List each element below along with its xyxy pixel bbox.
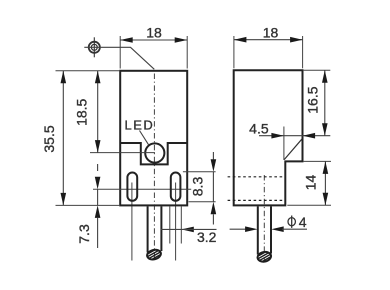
14 lower extension line	[287, 204, 331, 206]
svg-text:4.5: 4.5	[249, 120, 269, 136]
dimension Phi 4	[230, 214, 307, 232]
svg-text:18: 18	[263, 25, 279, 41]
LED center extension line	[90, 152, 155, 154]
svg-text:18.5: 18.5	[74, 98, 90, 125]
dimension 16.5	[304, 70, 327, 135]
dimension 14	[303, 161, 329, 205]
dimension 35.5	[41, 71, 66, 206]
dimension 18.5	[74, 71, 101, 153]
internal line y=189.3 across body	[93, 188, 191, 190]
cable (side view)	[257, 206, 259, 254]
slot edge extension lines below body	[169, 207, 171, 244]
dimension 18 (side view top)	[234, 25, 303, 69]
14 upper extension line	[304, 160, 331, 162]
cable (front view)	[147, 206, 149, 252]
svg-text:7.3: 7.3	[76, 224, 92, 244]
cable end ellipse with hatch (side view)	[252, 243, 276, 270]
chamfer diagonal	[284, 139, 302, 159]
dimension 3.2	[161, 227, 217, 245]
dashed mounting zone lines	[228, 176, 284, 178]
dimension 4.5 line (also 16.5 lower reference)	[249, 120, 330, 138]
svg-text:35.5: 35.5	[41, 125, 57, 152]
target symbol (sensing face datum)	[89, 37, 100, 57]
dimension 7.3	[76, 164, 100, 248]
svg-text:16.5: 16.5	[304, 86, 320, 113]
mounting slot right	[171, 173, 181, 201]
LED leader line	[140, 131, 149, 145]
svg-text:14: 14	[303, 175, 319, 191]
body outline (side view)	[234, 70, 303, 205]
svg-text:8.3: 8.3	[190, 177, 206, 197]
slot center line left	[131, 183, 133, 261]
LED window circle	[145, 143, 164, 162]
bottom extension line (left of body)	[56, 204, 120, 206]
svg-text:4: 4	[299, 214, 307, 230]
4.5 chamfer extension line	[283, 127, 285, 161]
slot center line right	[175, 183, 177, 261]
svg-text:3.2: 3.2	[197, 229, 217, 245]
top extension line (left of body)	[56, 70, 120, 72]
LED recess notch	[120, 143, 187, 164]
center line (vertical dash-dot, side view)	[263, 175, 265, 260]
body outline (front view)	[120, 71, 187, 206]
dimension 8.3	[183, 152, 216, 225]
mounting slot left	[127, 173, 137, 201]
center line (vertical dash-dot, front view)	[153, 74, 155, 260]
extension line at body top (side view, right)	[304, 69, 331, 71]
dimension 18 (front view top)	[120, 25, 187, 69]
leader from target symbol to sensing face	[84, 47, 154, 69]
cable end ellipse with hatch (front view)	[142, 244, 166, 268]
svg-text:18: 18	[146, 25, 162, 41]
svg-text:LED: LED	[125, 118, 155, 133]
